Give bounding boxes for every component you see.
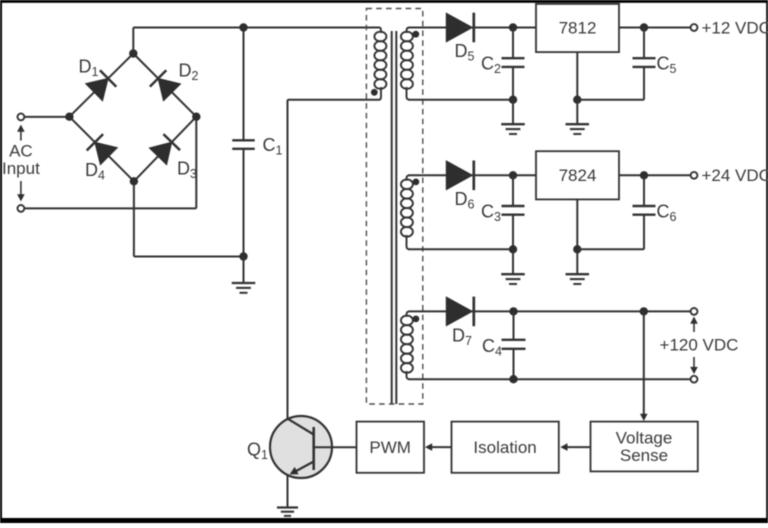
node 7812 ground (573, 96, 581, 104)
capacitor C6 (633, 175, 656, 214)
svg-text:+120 VDC: +120 VDC (660, 336, 739, 355)
wire 7824 output (619, 174, 691, 176)
label +120 VDC with arrows (660, 317, 739, 375)
node 7812 output (640, 23, 648, 31)
diode D4 label (85, 160, 105, 183)
wire AC top to bridge (25, 116, 70, 118)
svg-text:Isolation: Isolation (473, 438, 536, 457)
transistor Q1 label (247, 440, 268, 463)
node C1 top (239, 23, 247, 31)
node bridge left (65, 113, 73, 121)
capacitor C2 label (481, 54, 501, 77)
terminal +120 VDC bottom (691, 376, 698, 383)
terminal +120 VDC top (691, 308, 698, 315)
ground below 7824 (566, 274, 590, 284)
block PWM (357, 422, 425, 473)
node C1 bottom (239, 252, 247, 260)
capacitor C5 label (657, 54, 677, 77)
terminal +12 VDC (691, 24, 698, 31)
node 7824 output (640, 171, 648, 179)
node 7824 ground (573, 245, 581, 253)
capacitor C4 label (482, 336, 502, 359)
wire bridge diagonal D3 (134, 117, 196, 182)
capacitor C4 (502, 311, 526, 379)
diode D7 label (452, 326, 472, 349)
regulator 7824 (536, 151, 619, 199)
wire PWM to Q1 base (331, 446, 356, 448)
capacitor C1 (232, 28, 255, 257)
7812 ground pin (576, 52, 578, 124)
node C4 bottom (509, 375, 517, 383)
block Isolation (452, 422, 559, 473)
svg-text:AC: AC (9, 141, 33, 160)
wire bridge diagonal D4 (69, 117, 133, 182)
diode D2 (150, 70, 181, 101)
ground below C3 (501, 249, 525, 284)
diode D4 (87, 134, 118, 165)
wire bridge diagonal D1 (69, 54, 133, 117)
secondary S2 phasing dot (413, 179, 420, 186)
ground below 7812 (566, 124, 590, 134)
diode D1 (86, 70, 117, 101)
diode D3 label (177, 159, 197, 182)
capacitor C6 label (657, 201, 677, 224)
svg-text:PWM: PWM (369, 438, 411, 457)
ground below C1 (232, 257, 256, 293)
block Voltage Sense (591, 422, 698, 472)
capacitor C3 label (481, 201, 501, 224)
terminal +24 VDC (691, 172, 698, 179)
capacitor C5 (633, 28, 656, 67)
svg-text:+12 VDC: +12 VDC (702, 18, 768, 37)
svg-text:+24 VDC: +24 VDC (702, 166, 768, 185)
transformer dashed enclosure (366, 9, 422, 405)
wire D5 to 7812 (461, 27, 536, 29)
wire bridge diagonal D2 (133, 54, 196, 117)
capacitor C1 label (263, 135, 283, 158)
diode D7 (446, 297, 474, 327)
wire 7824 ground to C6 (577, 215, 644, 250)
diode D6 label (455, 189, 475, 212)
node bridge right (192, 113, 200, 121)
arrow into voltage sense (640, 414, 648, 421)
node C3 bottom (509, 245, 517, 253)
diode D6 (446, 161, 474, 191)
svg-text:Input: Input (2, 159, 40, 178)
svg-text:Sense: Sense (620, 446, 668, 465)
wire D6 to 7824 (461, 174, 536, 176)
svg-text:7812: 7812 (559, 19, 597, 38)
capacitor C3 (502, 175, 525, 249)
wire S3 top to D7 (409, 310, 447, 312)
wire 7812 ground to C5 (577, 67, 644, 100)
7824 ground pin (576, 199, 578, 274)
AC input label and arrows (2, 125, 40, 202)
wire S1 top to D5 (409, 27, 447, 29)
node bridge top (129, 49, 137, 57)
transformer primary winding (374, 28, 386, 100)
label +12 VDC (702, 18, 768, 37)
diode D2 label (179, 61, 199, 84)
transformer secondary winding S3 (401, 311, 413, 379)
wire 7812 output (619, 27, 691, 29)
transformer secondary winding S1 (401, 28, 413, 100)
wire S2 top to D6 (409, 174, 447, 176)
wire primary bottom to Q1 collector (288, 100, 380, 420)
arrow into isolation (560, 443, 567, 451)
ground below Q1 (277, 508, 298, 516)
wire voltage sense to isolation (565, 446, 591, 448)
wire isolation to PWM (429, 446, 451, 448)
wire voltage sense line (643, 311, 645, 416)
AC input terminal top (18, 114, 25, 121)
diode D5 (446, 13, 474, 43)
node voltage sense tap (640, 307, 648, 315)
node D6 C3 7824 (509, 171, 517, 179)
svg-text:Voltage: Voltage (616, 428, 673, 447)
secondary S1 phasing dot (412, 31, 419, 38)
wire S3 bottom to +120 terminal (409, 378, 691, 380)
secondary S3 phasing dot (413, 316, 420, 323)
transformer core (392, 31, 397, 404)
regulator 7812 (536, 4, 619, 52)
wire bridge bottom to C1 ground (134, 181, 244, 256)
primary phasing dot (371, 89, 378, 96)
wire bridge top to transformer primary (133, 28, 379, 54)
arrow into PWM (425, 443, 432, 451)
node bridge bottom (130, 177, 138, 185)
node D5 C2 7812 (509, 23, 517, 31)
wire S1 bottom rail (409, 99, 514, 101)
node D7 C4 (509, 307, 517, 315)
diode D3 (149, 134, 180, 165)
wire Q1 emitter to ground (287, 475, 289, 508)
transformer secondary winding S2 (401, 175, 413, 249)
diode D5 label (455, 41, 475, 64)
wire D7 to +120 terminal (461, 310, 691, 312)
diode D1 label (79, 57, 99, 80)
svg-text:7824: 7824 (559, 166, 597, 185)
ground below C2 (501, 100, 525, 134)
capacitor C2 (502, 28, 525, 100)
wire S2 bottom rail (409, 248, 514, 250)
AC input terminal bottom (18, 205, 25, 212)
node C2 bottom (509, 96, 517, 104)
wire AC bottom to bridge right (25, 117, 197, 209)
transistor Q1 (270, 416, 332, 478)
label +24 VDC (702, 166, 768, 185)
